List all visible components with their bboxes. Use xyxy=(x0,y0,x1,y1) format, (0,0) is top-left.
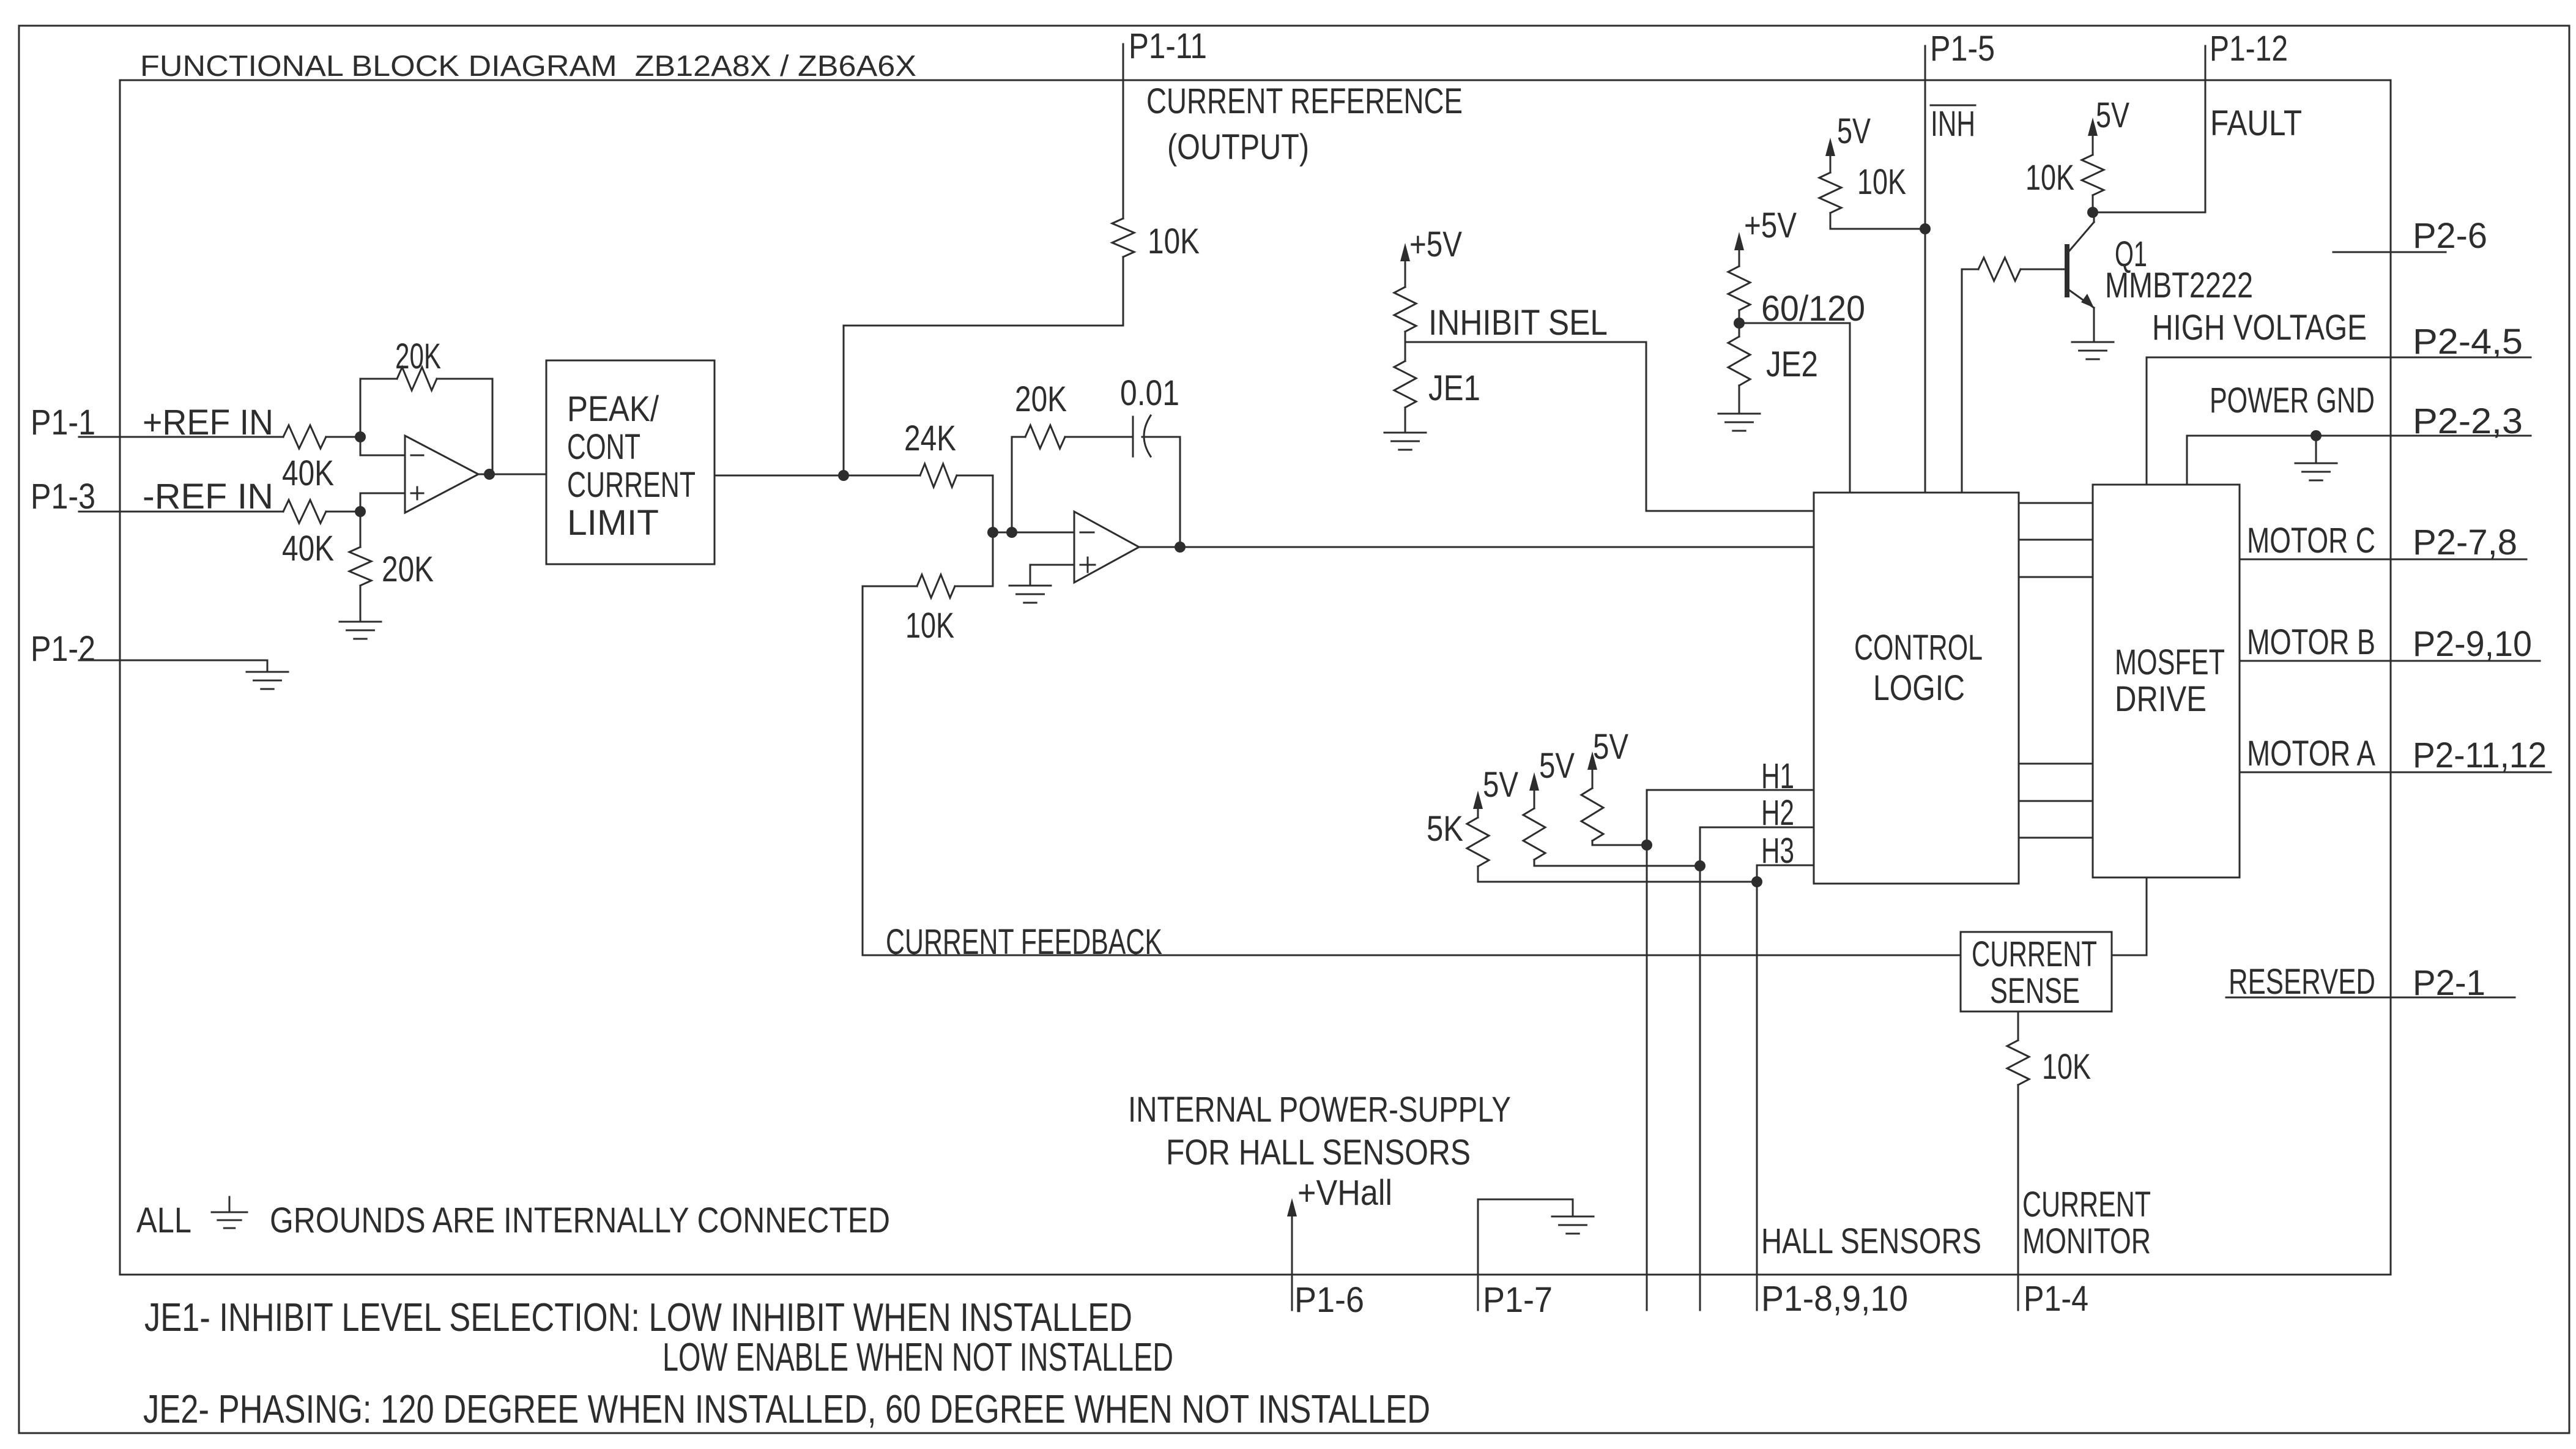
node FAULT junction xyxy=(2087,207,2098,218)
node INH junction xyxy=(1920,223,1931,234)
svg-text:MMBT2222: MMBT2222 xyxy=(2105,266,2253,305)
node JE2 junction xyxy=(1734,318,1745,329)
resistor 5K hall 1 xyxy=(1467,818,1489,866)
wire U2 inverting input xyxy=(993,532,1074,534)
wire U2 feedback up xyxy=(1012,437,1025,532)
wire P1-3 -REF IN xyxy=(79,511,283,513)
svg-text:5V: 5V xyxy=(1483,765,1518,805)
ground JE1 xyxy=(1384,432,1426,434)
power arrow +5V JE2 xyxy=(1734,232,1744,250)
svg-text:LIMIT: LIMIT xyxy=(567,503,659,543)
wire U1 feedback down xyxy=(437,379,492,474)
ground P1-2 xyxy=(247,671,288,673)
svg-text:MONITOR: MONITOR xyxy=(2022,1221,2151,1261)
svg-text:CURRENT REFERENCE: CURRENT REFERENCE xyxy=(1146,81,1463,121)
svg-text:JE2- PHASING: 120 DEGREE WHEN: JE2- PHASING: 120 DEGREE WHEN INSTALLED,… xyxy=(143,1387,1430,1431)
svg-text:JE1- INHIBIT LEVEL SELECTION:: JE1- INHIBIT LEVEL SELECTION: LOW INHIBI… xyxy=(144,1295,1132,1339)
svg-text:10K: 10K xyxy=(905,606,954,646)
wire HIGH VOLTAGE P2-4,5 xyxy=(2147,357,2531,485)
svg-text:(OUTPUT): (OUTPUT) xyxy=(1167,127,1309,167)
block PEAK/CONT CURRENT LIMIT xyxy=(546,360,715,564)
svg-text:40K: 40K xyxy=(282,453,334,493)
inner schematic boundary box xyxy=(120,80,2391,1275)
svg-text:P1-11: P1-11 xyxy=(1129,26,1207,66)
svg-text:P1-7: P1-7 xyxy=(1483,1280,1553,1320)
svg-text:JE2: JE2 xyxy=(1766,345,1818,384)
svg-text:FAULT: FAULT xyxy=(2210,103,2302,143)
svg-text:JE1: JE1 xyxy=(1428,368,1480,408)
svg-text:GROUNDS ARE INTERNALLY CONNECT: GROUNDS ARE INTERNALLY CONNECTED xyxy=(270,1201,890,1240)
svg-text:5V: 5V xyxy=(1539,746,1575,786)
svg-text:CONTROL: CONTROL xyxy=(1854,628,1983,668)
resistor 20K feedback U2 xyxy=(1025,425,1065,449)
wire U2 non-inverting input xyxy=(1030,564,1074,566)
svg-text:+5V: +5V xyxy=(1744,206,1797,245)
power arrow 5V hall 1 xyxy=(1473,791,1483,809)
resistor 20K to ground xyxy=(349,547,371,586)
svg-text:20K: 20K xyxy=(1015,379,1067,419)
svg-text:CURRENT: CURRENT xyxy=(567,465,696,505)
wire H2 xyxy=(1700,827,1814,1310)
svg-text:CURRENT: CURRENT xyxy=(2022,1185,2151,1224)
svg-text:P1-12: P1-12 xyxy=(2210,29,2288,69)
svg-text:POWER GND: POWER GND xyxy=(2210,381,2375,420)
svg-text:PEAK/: PEAK/ xyxy=(567,389,659,429)
wire MOTOR A xyxy=(2240,772,2551,773)
wire 60/120 to control logic xyxy=(1739,310,1850,493)
svg-text:ALL: ALL xyxy=(136,1201,191,1240)
wire bus 6 xyxy=(2019,837,2093,839)
node U2 output xyxy=(1175,542,1186,553)
wire hall 3 to H1 node xyxy=(1592,841,1647,845)
svg-text:P2-4,5: P2-4,5 xyxy=(2413,322,2523,362)
svg-text:P2-6: P2-6 xyxy=(2413,216,2487,256)
power arrow +5V JE1 xyxy=(1400,243,1410,261)
svg-text:MOTOR A: MOTOR A xyxy=(2247,734,2375,773)
op-amp U1 xyxy=(405,436,478,513)
svg-text:10K: 10K xyxy=(2042,1047,2091,1087)
block MOSFET DRIVE xyxy=(2093,485,2240,877)
wire P1-4 current monitor xyxy=(2017,1085,2019,1310)
svg-text:P1-2: P1-2 xyxy=(31,629,95,669)
svg-text:P2-7,8: P2-7,8 xyxy=(2413,523,2517,562)
svg-text:20K: 20K xyxy=(382,549,434,589)
resistor 20K feedback U1 xyxy=(397,367,437,390)
block CONTROL LOGIC xyxy=(1814,493,2019,884)
svg-text:10K: 10K xyxy=(1148,222,1200,261)
svg-text:5K: 5K xyxy=(1427,809,1463,849)
wire U1 output xyxy=(478,474,546,475)
ground P1-7 xyxy=(1552,1216,1594,1218)
node summing B xyxy=(1006,527,1017,538)
ground Q1 emitter xyxy=(2072,341,2114,343)
svg-text:P1-4: P1-4 xyxy=(2024,1279,2088,1319)
svg-text:20K: 20K xyxy=(395,337,441,376)
wire up to current reference xyxy=(844,257,1123,475)
svg-text:P1-6: P1-6 xyxy=(1294,1280,1364,1320)
svg-text:P2-2,3: P2-2,3 xyxy=(2413,401,2523,441)
wire to op-amp U1 inverting input xyxy=(360,437,405,455)
svg-text:LOW ENABLE WHEN NOT INSTALLED: LOW ENABLE WHEN NOT INSTALLED xyxy=(663,1335,1173,1379)
resistor 40K upper (input) xyxy=(283,425,326,449)
node +REF junction xyxy=(355,431,366,442)
capacitor 0.01 xyxy=(1132,417,1134,456)
svg-text:FOR HALL SENSORS: FOR HALL SENSORS xyxy=(1166,1133,1471,1172)
wire POWER GND P2-2,3 xyxy=(2187,436,2531,485)
wire current feedback xyxy=(863,586,1961,955)
node summing A xyxy=(987,527,998,538)
wire U2 output to control logic xyxy=(1139,546,1814,548)
wire bus 5 xyxy=(2019,800,2093,802)
transistor Q1 xyxy=(2065,244,2069,297)
wire capacitor to output xyxy=(1142,437,1180,547)
node H3 junction xyxy=(1751,876,1762,887)
wire H1 xyxy=(1647,790,1814,1310)
svg-text:MOSFET: MOSFET xyxy=(2115,643,2225,682)
svg-text:0.01: 0.01 xyxy=(1120,373,1179,413)
op-amp U2 xyxy=(1074,512,1139,583)
wire to op-amp U1 non-inverting input xyxy=(360,493,405,512)
resistor 5K hall 3 xyxy=(1581,788,1603,841)
wire FAULT to P1-12 xyxy=(2093,46,2205,212)
svg-text:RESERVED: RESERVED xyxy=(2229,962,2375,1002)
wire pull-up to collector xyxy=(2092,195,2094,212)
ground JE2 xyxy=(1718,413,1760,415)
svg-text:P2-1: P2-1 xyxy=(2413,963,2485,1003)
wire 20K to capacitor xyxy=(1065,436,1132,438)
svg-text:10K: 10K xyxy=(2025,158,2074,198)
svg-text:INH: INH xyxy=(1931,104,1975,144)
jumper JE2 resistor xyxy=(1728,337,1750,386)
wire 10K up to summing node xyxy=(992,532,994,586)
wire P1-11 xyxy=(1123,44,1124,218)
resistor 10K FAULT pull-up xyxy=(2082,155,2104,195)
resistor 24K xyxy=(920,464,957,487)
resistor 10K current monitor xyxy=(2007,1040,2029,1085)
resistor 40K lower (input) xyxy=(283,500,326,523)
svg-text:P1-8,9,10: P1-8,9,10 xyxy=(1761,1279,1908,1319)
wire P1-1 +REF IN xyxy=(79,436,283,438)
svg-text:5V: 5V xyxy=(1837,111,1871,151)
resistor 10K feedback input xyxy=(917,575,955,598)
wire MOTOR B xyxy=(2240,660,2540,662)
jumper JE1 resistor xyxy=(1394,361,1416,408)
wire 20K ground leg xyxy=(360,512,362,547)
wire U1 feedback up xyxy=(360,379,397,437)
wire bus 3 xyxy=(2019,576,2093,578)
ground below 20K xyxy=(340,621,381,623)
resistor 5K hall 2 xyxy=(1523,808,1545,860)
svg-text:MOTOR C: MOTOR C xyxy=(2247,521,2375,561)
svg-text:P1-5: P1-5 xyxy=(1930,29,1995,69)
ground POWER GND xyxy=(2295,463,2337,464)
resistor 10K INH pull-up xyxy=(1819,173,1841,213)
svg-text:10K: 10K xyxy=(1857,162,1906,202)
block CURRENT SENSE xyxy=(1961,932,2112,1011)
resistor pull-up JE1 xyxy=(1394,287,1416,332)
resistor Q1 base xyxy=(1978,258,2021,281)
wire INH pull-up xyxy=(1830,213,1925,229)
svg-text:CONT: CONT xyxy=(567,427,640,467)
svg-text:-REF IN: -REF IN xyxy=(143,477,273,516)
svg-text:+VHall: +VHall xyxy=(1297,1173,1392,1213)
node H2 junction xyxy=(1694,860,1706,871)
svg-text:40K: 40K xyxy=(282,529,334,568)
svg-text:LOGIC: LOGIC xyxy=(1873,668,1965,708)
svg-text:P2-9,10: P2-9,10 xyxy=(2413,624,2532,664)
power arrow 5V FAULT xyxy=(2088,117,2098,136)
wire MOTOR C xyxy=(2240,559,2526,561)
wire block output xyxy=(715,475,844,477)
svg-text:5V: 5V xyxy=(1593,727,1628,767)
node H1 junction xyxy=(1641,840,1652,851)
svg-text:5V: 5V xyxy=(2096,95,2129,135)
svg-text:FUNCTIONAL BLOCK DIAGRAM ZB12: FUNCTIONAL BLOCK DIAGRAM ZB12A8X / ZB6A6… xyxy=(140,50,916,83)
wire MOSFET to current sense xyxy=(2112,877,2147,955)
wire bus 1 xyxy=(2019,502,2093,504)
wire P1-7 ground xyxy=(1478,1199,1573,1310)
node U1 output xyxy=(484,469,495,480)
power arrow 5V hall 2 xyxy=(1529,772,1539,791)
node POWER GND xyxy=(2311,430,2322,441)
svg-text:INTERNAL POWER-SUPPLY: INTERNAL POWER-SUPPLY xyxy=(1128,1090,1511,1130)
wire bus 2 xyxy=(2019,539,2093,541)
wire H3 xyxy=(1757,865,1814,1310)
svg-text:P2-11,12: P2-11,12 xyxy=(2413,736,2547,775)
wire Q1 base xyxy=(2021,269,2066,270)
svg-text:HIGH VOLTAGE: HIGH VOLTAGE xyxy=(2152,308,2367,348)
wire hall 2 to H2 node xyxy=(1534,860,1700,866)
power arrow 5V hall 3 xyxy=(1587,751,1597,770)
svg-text:SENSE: SENSE xyxy=(1990,971,2080,1011)
wire hall 1 to H3 node xyxy=(1478,866,1757,882)
wire 10K feedback input xyxy=(863,586,917,587)
wire P1-2 ground xyxy=(79,660,267,672)
svg-text:HALL SENSORS: HALL SENSORS xyxy=(1761,1221,1981,1261)
wire current sense to 10K xyxy=(2017,1011,2019,1040)
svg-text:CURRENT FEEDBACK: CURRENT FEEDBACK xyxy=(886,922,1162,962)
svg-text:P1-3: P1-3 xyxy=(31,477,95,516)
power arrow 5V INH xyxy=(1825,138,1835,156)
wire base to control logic xyxy=(1961,269,1963,493)
svg-text:+5V: +5V xyxy=(1409,225,1462,264)
ground glyph in note xyxy=(229,1197,231,1212)
resistor pull-up JE2 xyxy=(1728,266,1750,310)
wire bus 4 xyxy=(2019,763,2093,765)
wire to 24K xyxy=(844,475,920,477)
wire JE2 ground leg xyxy=(1739,386,1740,414)
node -REF junction xyxy=(355,506,366,517)
wire 24K to summing node xyxy=(957,475,993,532)
wire JE1 ground leg xyxy=(1405,408,1406,433)
wire POWER GND ground leg xyxy=(2315,436,2317,463)
ground U2 non-inverting xyxy=(1009,585,1051,587)
wire INHIBIT SEL xyxy=(1405,332,1814,511)
svg-text:MOTOR B: MOTOR B xyxy=(2247,622,2375,662)
svg-text:24K: 24K xyxy=(904,419,956,458)
svg-text:CURRENT: CURRENT xyxy=(1972,934,2097,974)
svg-text:DRIVE: DRIVE xyxy=(2115,679,2207,719)
node current-limit output xyxy=(838,470,849,481)
wire P1-5 INH xyxy=(1925,46,1926,493)
svg-text:INHIBIT SEL: INHIBIT SEL xyxy=(1428,303,1608,343)
power arrow +VHall P1-6 xyxy=(1287,1198,1297,1216)
resistor 10K current reference xyxy=(1112,218,1134,257)
